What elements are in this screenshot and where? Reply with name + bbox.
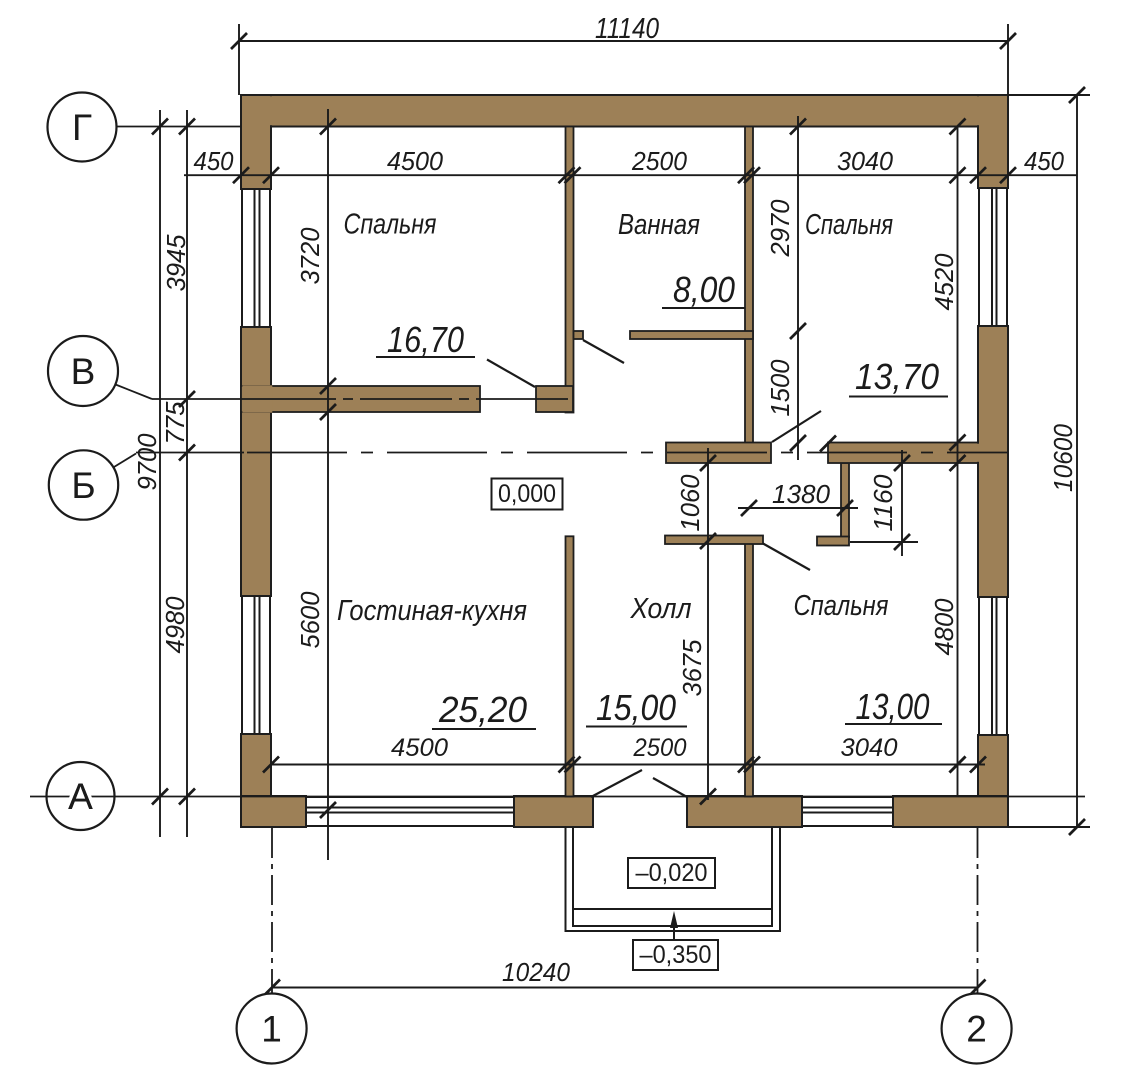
- entry door leaf right: [653, 778, 687, 797]
- ticks top chain 450/4500/2500/3040/450: [233, 167, 249, 183]
- area 16,70 underline: [376, 356, 475, 358]
- dim line 9700 (left outer): [159, 110, 161, 837]
- room labels: [337, 209, 893, 628]
- left exterior wall pier upper: [241, 95, 271, 189]
- bottom wall pier far-left: [241, 796, 306, 827]
- svg-text:3720: 3720: [295, 227, 325, 285]
- svg-text:4500: 4500: [391, 734, 448, 762]
- dim line bottom interior chain: [271, 764, 985, 766]
- bottom wall pier right of entry: [687, 796, 802, 827]
- svg-text:13,70: 13,70: [855, 356, 939, 397]
- svg-text:0,000: 0,000: [498, 480, 556, 508]
- svg-text:3675: 3675: [677, 639, 707, 697]
- bottom wall pier far-right: [893, 796, 1008, 827]
- svg-text:10240: 10240: [502, 957, 570, 987]
- ext line right bottom for 10600: [1008, 826, 1090, 828]
- svg-text:2500: 2500: [631, 146, 687, 176]
- svg-text:–0,350: –0,350: [640, 941, 712, 969]
- axis В leader: [116, 385, 153, 400]
- right exterior wall pier middle: [978, 326, 1008, 597]
- window W4 right wall faces: [978, 597, 980, 735]
- elevation -0,020 box: [628, 858, 715, 888]
- axis circle В: [48, 336, 118, 406]
- hall south thin wall: [665, 536, 763, 545]
- walls group: [241, 95, 1008, 827]
- window W6 glazing: [802, 807, 893, 809]
- svg-text:2500: 2500: [633, 734, 687, 762]
- porch inner outline: [573, 827, 772, 926]
- svg-text:Спальня: Спальня: [344, 209, 437, 241]
- axis В dash-dot line: [244, 398, 573, 400]
- partition bedroom1/bathroom: [566, 127, 574, 413]
- axis circle 2: [942, 994, 1012, 1064]
- svg-text:9700: 9700: [132, 433, 162, 491]
- dim line 10600: [1076, 95, 1078, 827]
- svg-text:4500: 4500: [387, 146, 444, 176]
- ticks dim 2970/1500: [790, 119, 806, 135]
- dim line interior 4520/4800: [957, 127, 959, 798]
- window W1 glazing: [254, 189, 256, 327]
- axis Б leader: [114, 454, 136, 468]
- partition hall/bedroom3: [745, 537, 753, 797]
- dim line interior 1060/3675: [707, 448, 709, 800]
- ticks dim 11140: [231, 33, 247, 49]
- svg-text:1160: 1160: [868, 474, 898, 532]
- svg-text:450: 450: [194, 146, 234, 176]
- svg-text:16,70: 16,70: [387, 319, 464, 360]
- area 13,70 underline: [849, 396, 948, 398]
- svg-text:3040: 3040: [841, 734, 898, 762]
- dim line interior 2970/1500: [797, 116, 799, 460]
- svg-text:25,20: 25,20: [438, 689, 527, 730]
- svg-text:11140: 11140: [595, 13, 659, 45]
- svg-text:Гостиная-кухня: Гостиная-кухня: [337, 595, 527, 627]
- axis lines: [30, 127, 1085, 994]
- ticks bottom chain 4500/2500/3040: [263, 757, 279, 773]
- dim line 10240: [272, 987, 978, 989]
- porch outer outline: [566, 827, 781, 931]
- svg-text:Ванная: Ванная: [618, 209, 700, 241]
- closet wall foot: [817, 537, 849, 546]
- porch step line: [573, 908, 772, 910]
- seam patch axis Б wall / right pier: [976, 444, 980, 462]
- left exterior wall pier middle: [241, 327, 271, 596]
- axis Б dash-dot line: [244, 452, 1007, 454]
- axis Г line: [117, 126, 242, 128]
- svg-text:13,00: 13,00: [856, 686, 930, 727]
- ext line top-left: [238, 24, 240, 95]
- dimension texts horizontal: [194, 13, 1065, 987]
- ticks dim 1060/3675: [700, 455, 716, 471]
- seam patch axis B wall / left pier: [242, 385, 272, 412]
- axis circle 1: [237, 994, 307, 1064]
- svg-text:4800: 4800: [929, 598, 959, 656]
- svg-text:2: 2: [966, 1009, 987, 1050]
- area 15,00 underline: [586, 726, 687, 728]
- ext line for 1160 bottom: [850, 541, 918, 543]
- dim line top interior chain: [184, 174, 1077, 176]
- svg-text:1060: 1060: [675, 474, 705, 532]
- elevation arrow: [670, 911, 678, 940]
- axis 2 dash-dot line: [977, 828, 979, 993]
- area numbers: [376, 269, 948, 730]
- dimension texts rotated: [132, 199, 1078, 697]
- svg-text:Г: Г: [72, 107, 92, 148]
- dimension lines: [160, 24, 1090, 988]
- axis 1 dash-dot line: [271, 828, 273, 993]
- axis А line: [30, 796, 1085, 798]
- window W5 glazing: [306, 807, 514, 809]
- ticks dim 10240: [264, 980, 280, 996]
- ticks dim 10600: [1069, 87, 1085, 103]
- window W4 glazing: [991, 597, 993, 735]
- ticks dim 4520/4800: [950, 119, 966, 135]
- window W3 glazing: [991, 188, 993, 326]
- top exterior wall: [241, 95, 1008, 127]
- svg-text:1380: 1380: [772, 479, 831, 509]
- area 8,00 underline: [662, 307, 745, 309]
- window W2 left wall faces: [241, 596, 243, 734]
- axis circle Б: [49, 450, 118, 519]
- svg-text:3945: 3945: [161, 234, 191, 292]
- seam patch top-right corner: [976, 96, 980, 125]
- ticks left chain 3945/775/4980: [179, 119, 195, 135]
- svg-text:2970: 2970: [765, 199, 795, 258]
- svg-text:1500: 1500: [765, 359, 795, 417]
- svg-text:Б: Б: [71, 465, 95, 506]
- svg-text:Спальня: Спальня: [794, 590, 889, 622]
- svg-text:10600: 10600: [1048, 424, 1078, 492]
- area 13,00 underline: [845, 723, 942, 725]
- window W6 bottom wall faces: [802, 796, 893, 798]
- elevation 0,000 box: [492, 479, 563, 510]
- dimension ticks: [152, 33, 1085, 996]
- axis Б wall left segment: [666, 443, 771, 464]
- svg-text:Спальня: Спальня: [805, 209, 893, 241]
- svg-text:5600: 5600: [295, 591, 325, 649]
- right exterior wall pier upper: [978, 95, 1008, 188]
- entry door leaf left: [591, 770, 642, 797]
- svg-text:В: В: [71, 351, 96, 392]
- dim line 1380: [738, 507, 858, 509]
- ext line right top for 10600: [1008, 94, 1090, 96]
- svg-text:8,00: 8,00: [673, 269, 735, 310]
- svg-text:15,00: 15,00: [596, 687, 676, 728]
- bathroom door leaf: [583, 340, 624, 363]
- bottom wall pier left of entry: [514, 796, 593, 827]
- axis В lead line: [152, 398, 244, 400]
- bedroom3 door leaf: [763, 544, 810, 571]
- partition living/hall: [566, 536, 574, 796]
- window W2 glazing: [254, 596, 256, 734]
- svg-text:3040: 3040: [837, 146, 894, 176]
- dim line interior 1160: [901, 450, 903, 556]
- ext line top-right: [1007, 24, 1009, 95]
- svg-text:–0,020: –0,020: [636, 859, 708, 887]
- area 25,20 underline: [432, 728, 536, 730]
- bathroom door jamb stub: [574, 331, 584, 339]
- window W5 bottom wall faces: [306, 796, 514, 798]
- elevation -0,350 box: [633, 940, 718, 970]
- svg-text:А: А: [68, 776, 93, 817]
- axis Б wall right segment: [828, 443, 978, 464]
- axis Б lead line: [136, 452, 244, 454]
- porch: [566, 827, 781, 931]
- closet wall vertical: [841, 463, 849, 537]
- windows: [242, 188, 1007, 826]
- ticks dim 1160: [894, 455, 910, 471]
- dim line left chain 3945/775/4980: [186, 110, 188, 837]
- right exterior wall pier lower: [978, 735, 1008, 827]
- seam patch top-left corner: [269, 96, 273, 125]
- ticks dim 9700: [152, 119, 168, 135]
- door-side block of axis B wall: [536, 386, 573, 412]
- svg-text:450: 450: [1024, 146, 1064, 176]
- bathroom south wall: [630, 331, 753, 339]
- dim line 11140: [239, 40, 1008, 42]
- interior bearing wall on axis B (living/bedroom1): [241, 386, 480, 412]
- partition bathroom/bedroom2: [745, 127, 753, 444]
- svg-text:1: 1: [261, 1009, 282, 1050]
- left exterior wall pier lower: [241, 734, 271, 827]
- ticks dim 1380: [741, 500, 757, 516]
- axis circle Г: [48, 93, 117, 162]
- svg-text:4520: 4520: [929, 253, 959, 311]
- svg-text:4980: 4980: [160, 596, 190, 654]
- axis circle А: [47, 762, 115, 830]
- door leaves: [487, 340, 821, 797]
- window W1 left wall faces: [241, 189, 243, 327]
- bedroom1 door leaf: [487, 360, 535, 388]
- dim line interior 3720/5600: [327, 109, 329, 860]
- ticks dim 3720/5600: [320, 119, 336, 135]
- window W3 right wall faces: [978, 188, 980, 326]
- svg-text:Холл: Холл: [630, 593, 692, 625]
- svg-text:775: 775: [160, 401, 190, 445]
- bedroom2 door leaf: [772, 411, 821, 442]
